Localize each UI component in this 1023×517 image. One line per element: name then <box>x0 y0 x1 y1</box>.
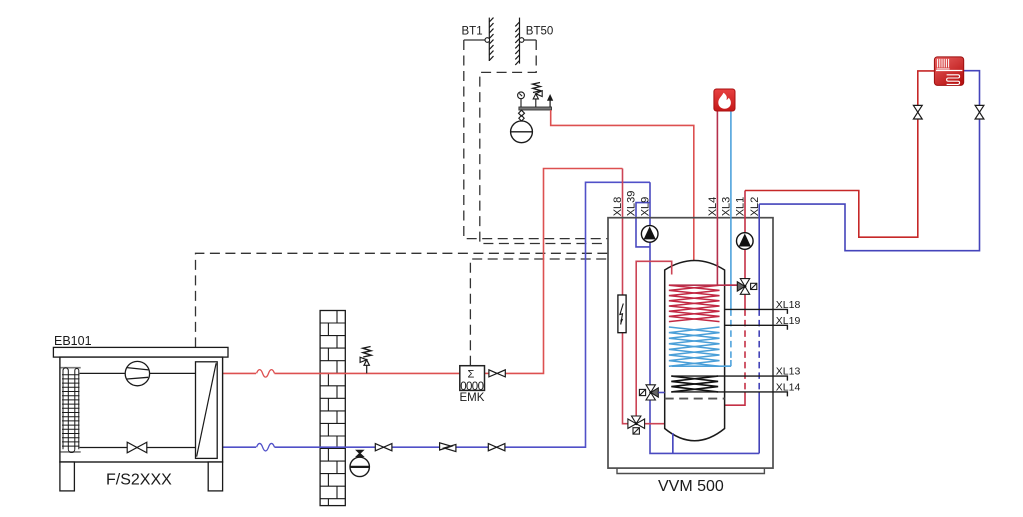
node BT1 mounting wall (hatched) <box>489 18 493 61</box>
coil (solar/extra, black) in tank <box>671 376 718 392</box>
wire: BT1 sensor dashed communication line to VVM <box>464 40 608 239</box>
pump GP6 (right, on XL1 line) <box>737 233 754 250</box>
drain vessel under blue line <box>350 450 369 476</box>
pressure gauge <box>518 92 525 107</box>
coil (cold water, blue) in tank <box>669 327 720 366</box>
manifold bar of safety group <box>519 107 552 110</box>
node valve QN11 center <box>649 391 652 394</box>
icon: hot water demand (flame) <box>714 89 735 111</box>
valve (shutoff) on blue line <box>375 444 392 451</box>
evaporator coil EB101 <box>61 368 81 453</box>
black connection line XL13 <box>671 376 787 381</box>
svg-text:Σ: Σ <box>468 369 475 381</box>
svg-text:XL14: XL14 <box>776 381 801 393</box>
wire: blue branch into tank bottom <box>672 433 674 453</box>
svg-text:XL19: XL19 <box>776 315 801 327</box>
heat exchanger EB101 <box>196 362 218 459</box>
valve on radiator return <box>975 105 984 119</box>
safety relief valve on manifold <box>533 82 543 107</box>
black connection line XL18 <box>725 309 788 314</box>
3-way valve QN10 (lower left, on red line) <box>628 416 645 434</box>
valve (balancing, double) on blue line <box>440 443 456 452</box>
wire: red pipe from lower mixing valve to tank <box>645 423 665 425</box>
wire: red XL8 riser into VVM (through immersion heater) <box>623 169 628 424</box>
svg-text:XL9: XL9 <box>640 197 652 217</box>
svg-text:BT1: BT1 <box>462 26 483 38</box>
wire: blue return pipe from EB101 (with flex squiggle and shutoff valves) <box>223 182 650 451</box>
wire: EB101 internal bottom pipe <box>80 447 196 449</box>
brick wall section <box>320 311 345 506</box>
svg-text:XL1: XL1 <box>735 197 747 217</box>
svg-text:EB101: EB101 <box>54 334 92 348</box>
svg-text:VVM 500: VVM 500 <box>658 478 724 495</box>
valve right of EMK <box>489 370 505 377</box>
expansion valve EB101 <box>127 442 147 453</box>
svg-text:BT50: BT50 <box>526 26 554 38</box>
pump GP1 (left, on XL9 line) <box>641 226 658 243</box>
wire: EMK dashed communication line to VVM <box>470 259 608 366</box>
wire: red XL1 heating supply down to 3-way valve and tank <box>725 191 745 406</box>
wire: blue XL9/XL39 lines into VVM with pump bypass jog <box>636 182 759 453</box>
tank partition dashed line <box>665 398 725 400</box>
immersion heater element <box>618 295 626 333</box>
wire: red tank-top tap segment inside tank <box>671 264 673 275</box>
wire: EB101 internal top pipe <box>80 372 196 374</box>
sensor BT50 (circle on wall) <box>519 38 524 43</box>
unit VVM 500 cabinet <box>608 218 773 468</box>
node BT50 mounting wall (hatched) <box>515 18 519 65</box>
tank of VVM 500 <box>665 261 725 441</box>
wire: red pipe from safety group manifold to tank top <box>551 110 694 261</box>
svg-text:XL4: XL4 <box>707 197 719 217</box>
valve (shutoff) on blue line 2 <box>488 444 505 451</box>
svg-text:EMK: EMK <box>460 392 485 404</box>
expansion vessel of safety group <box>511 110 533 143</box>
EB101 right leg <box>208 462 222 491</box>
coil (hot water, red) in tank <box>669 285 720 321</box>
wire: red radiator circuit supply <box>745 71 934 237</box>
wire: blue stub valve QN11 to tank <box>658 392 664 394</box>
valve on radiator supply <box>913 105 922 119</box>
wire: red XL4 hot water line to coil top <box>669 111 737 285</box>
black connection line XL19 <box>725 325 788 330</box>
svg-text:XL13: XL13 <box>776 366 801 378</box>
EB101 top cap <box>53 347 228 357</box>
wire: light blue coil bottom line inside tank <box>672 365 731 367</box>
unit EB101 outdoor heat pump <box>53 347 228 491</box>
safety valve on red line after wall <box>360 347 371 374</box>
wire: red XL4 segment inside tank to coil top <box>669 262 737 285</box>
3-way valve QN11 (mid left, on blue line) <box>639 385 658 400</box>
wire: blue radiator circuit return to XL2 <box>759 71 979 251</box>
EB101 left leg <box>60 462 75 491</box>
wire: dark blue XL2 return inside VVM <box>758 204 760 453</box>
node valve QN12 center <box>744 285 747 288</box>
svg-text:XL18: XL18 <box>776 299 801 311</box>
svg-text:XL3: XL3 <box>721 197 733 217</box>
vent arrow on manifold <box>548 95 552 107</box>
node valve QN10 center <box>635 422 638 425</box>
3-way valve QN12 (upper right, on XL1 line) <box>737 279 757 295</box>
wire: light blue XL3 cold water line <box>672 111 731 366</box>
wire: red pipe tank top tap to lower mixing valve <box>636 261 672 416</box>
wire: red heating pipe from EB101 to EMK (with flex squiggles) <box>223 169 623 378</box>
wire: EB101 dashed communication line to VVM <box>196 253 609 347</box>
svg-text:F/S2XXX: F/S2XXX <box>106 472 172 489</box>
icon: heating system (radiator) <box>934 57 963 86</box>
fan EB101 <box>125 361 149 385</box>
svg-text:XL2: XL2 <box>749 197 761 217</box>
black connection line XL14 <box>671 392 787 397</box>
sensor BT1 (circle on wall) <box>485 38 490 43</box>
svg-text:XL39: XL39 <box>626 191 638 217</box>
VVM 500 plinth <box>617 468 764 473</box>
EB101 body <box>60 357 223 462</box>
wire: BT50 sensor dashed communication line to VVM <box>480 40 608 244</box>
svg-text:XL8: XL8 <box>612 197 624 217</box>
meter EMK box <box>460 366 485 404</box>
